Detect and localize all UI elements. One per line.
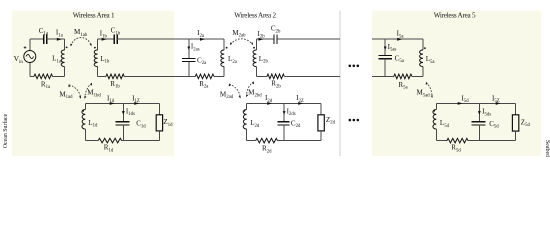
svg-text:Ocean Surface: Ocean Surface xyxy=(2,113,9,148)
svg-text:Wireless Area 5: Wireless Area 5 xyxy=(434,11,476,19)
svg-text:Wireless Area 2: Wireless Area 2 xyxy=(234,11,276,19)
svg-text:Wireless Area 1: Wireless Area 1 xyxy=(73,11,115,19)
svg-text:Seabed: Seabed xyxy=(544,140,550,157)
